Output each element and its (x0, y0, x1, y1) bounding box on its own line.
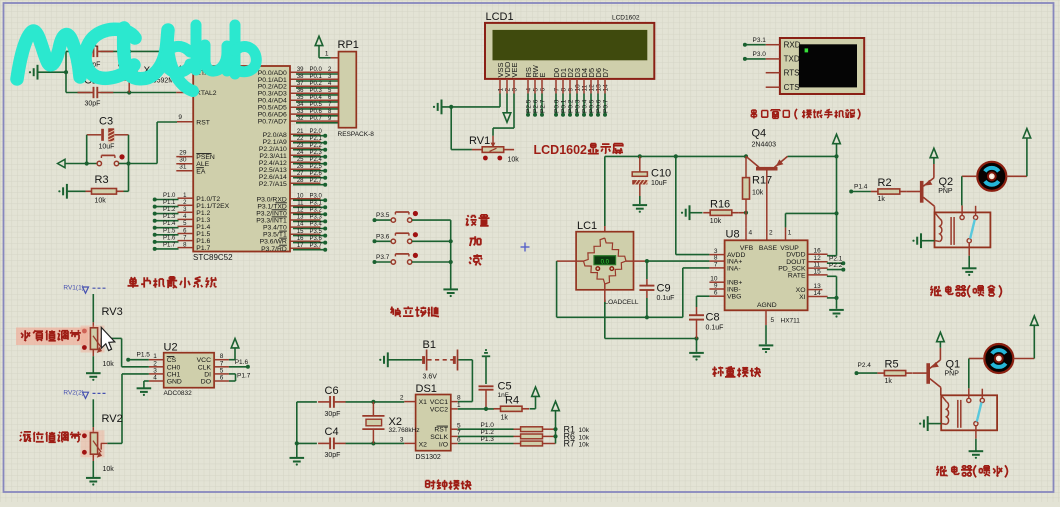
svg-text:10: 10 (297, 193, 304, 199)
svg-text:P1.4: P1.4 (854, 183, 868, 190)
svg-text:P0.6: P0.6 (596, 99, 603, 113)
svg-text:0.1uF: 0.1uF (706, 324, 724, 331)
svg-text:6: 6 (539, 88, 546, 92)
svg-text:13: 13 (595, 84, 602, 92)
svg-text:9: 9 (178, 114, 182, 121)
svg-text:P0.4: P0.4 (582, 99, 589, 113)
svg-text:P0.5: P0.5 (310, 102, 323, 108)
svg-text:SCLK: SCLK (430, 434, 448, 441)
svg-text:R2: R2 (878, 177, 892, 189)
svg-text:LOADCELL: LOADCELL (605, 299, 639, 306)
svg-text:P0.0: P0.0 (554, 99, 561, 113)
svg-text:8: 8 (220, 353, 224, 360)
svg-text:P1.5: P1.5 (196, 231, 210, 238)
svg-text:12: 12 (588, 84, 595, 92)
svg-text:P0.4/AD4: P0.4/AD4 (258, 98, 287, 105)
svg-text:P0.7/AD7: P0.7/AD7 (258, 119, 287, 126)
svg-text:6: 6 (714, 290, 718, 297)
svg-text:5: 5 (771, 317, 775, 324)
svg-text:CTS: CTS (784, 83, 800, 92)
svg-text:LC1: LC1 (577, 220, 597, 232)
svg-text:C6: C6 (325, 385, 339, 397)
svg-text:RV1(1): RV1(1) (63, 284, 83, 291)
svg-text:P3.1/TXD: P3.1/TXD (257, 203, 287, 210)
svg-text:P3.2/INT0: P3.2/INT0 (256, 210, 287, 217)
svg-text:P3.0/RXD: P3.0/RXD (257, 196, 287, 203)
svg-text:I/O: I/O (439, 441, 448, 448)
svg-text:P3.3/INT1: P3.3/INT1 (256, 218, 287, 225)
svg-text:RXD: RXD (784, 40, 801, 49)
svg-text:R16: R16 (710, 198, 730, 210)
svg-text:P2.1: P2.1 (310, 136, 323, 142)
svg-text:P3.4: P3.4 (310, 222, 323, 228)
svg-text:P0.1: P0.1 (310, 74, 323, 80)
svg-text:XTAL2: XTAL2 (196, 90, 216, 97)
svg-text:LCD1602: LCD1602 (534, 143, 588, 157)
svg-text:P2.6: P2.6 (533, 99, 540, 113)
svg-text:24: 24 (297, 150, 304, 156)
svg-text:P3.1: P3.1 (310, 201, 323, 207)
svg-text:29: 29 (179, 149, 187, 156)
svg-text:6: 6 (457, 437, 461, 444)
svg-text:RTS: RTS (784, 68, 800, 77)
svg-text:4: 4 (153, 375, 157, 382)
svg-text:30pF: 30pF (85, 101, 101, 108)
svg-text:P3.7: P3.7 (310, 243, 323, 249)
svg-text:P1.6: P1.6 (163, 235, 176, 241)
svg-text:RV2(2): RV2(2) (63, 390, 83, 397)
svg-text:P0.5: P0.5 (589, 99, 596, 113)
svg-text:2: 2 (400, 395, 404, 402)
svg-text:1: 1 (153, 353, 157, 360)
svg-text:RV3: RV3 (102, 306, 123, 318)
svg-text:C9: C9 (657, 283, 671, 295)
svg-text:R5: R5 (885, 359, 899, 371)
svg-text:P1.3: P1.3 (196, 217, 210, 224)
svg-text:2: 2 (769, 230, 773, 237)
svg-text:15: 15 (297, 229, 304, 235)
svg-text:P1.0/T2: P1.0/T2 (196, 196, 220, 203)
svg-text:P2.1/A9: P2.1/A9 (263, 139, 287, 146)
svg-text:3: 3 (153, 367, 157, 374)
svg-text:P0.2: P0.2 (310, 81, 323, 87)
svg-text:RP1: RP1 (338, 39, 359, 51)
svg-text:30: 30 (179, 156, 187, 163)
svg-text:10k: 10k (710, 218, 722, 225)
svg-text:Q1: Q1 (946, 358, 961, 370)
svg-text:P2.5: P2.5 (526, 99, 533, 113)
svg-text:22: 22 (297, 136, 304, 142)
svg-text:P2.2: P2.2 (829, 262, 843, 269)
svg-text:28: 28 (297, 178, 304, 184)
svg-text:DI: DI (204, 371, 211, 378)
svg-text:P0.3: P0.3 (310, 88, 323, 94)
svg-text:P1.7: P1.7 (163, 242, 176, 248)
svg-text:P0.7: P0.7 (603, 99, 610, 113)
svg-text:12: 12 (297, 208, 304, 214)
svg-text:33: 33 (297, 109, 304, 115)
svg-text:4: 4 (525, 88, 532, 92)
svg-text:DVDD: DVDD (786, 252, 805, 259)
svg-text:5: 5 (457, 422, 461, 429)
svg-text:10k: 10k (579, 441, 590, 448)
svg-text:2N4403: 2N4403 (752, 142, 777, 149)
svg-text:VCC2: VCC2 (430, 407, 448, 414)
svg-text:EA: EA (196, 168, 206, 175)
svg-text:30pF: 30pF (325, 452, 341, 459)
svg-text:7: 7 (220, 360, 224, 367)
svg-text:P3.5/T1: P3.5/T1 (263, 232, 287, 239)
svg-text:8: 8 (560, 88, 567, 92)
svg-text:P3.5: P3.5 (310, 229, 323, 235)
svg-text:P1.1: P1.1 (163, 200, 176, 206)
svg-text:1: 1 (325, 51, 329, 58)
svg-text:P0.3: P0.3 (575, 99, 582, 113)
svg-text:P2.0/A8: P2.0/A8 (263, 132, 287, 139)
svg-text:CLK: CLK (198, 364, 212, 371)
svg-text:INA-: INA- (727, 265, 741, 272)
svg-text:27: 27 (297, 171, 304, 177)
svg-text:RATE: RATE (788, 272, 806, 279)
svg-text:D7: D7 (601, 68, 610, 78)
svg-text:34: 34 (297, 102, 304, 108)
svg-text:P0.2/AD2: P0.2/AD2 (258, 84, 287, 91)
svg-text:X1: X1 (419, 399, 428, 406)
svg-text:RV1: RV1 (469, 135, 490, 147)
svg-text:36: 36 (297, 88, 304, 94)
svg-text:DO: DO (201, 379, 211, 386)
svg-text:R17: R17 (752, 174, 772, 186)
svg-text:PSEN: PSEN (196, 154, 215, 161)
svg-text:P1.1/T2EX: P1.1/T2EX (196, 203, 229, 210)
svg-text:1k: 1k (878, 196, 886, 203)
svg-text:31: 31 (179, 164, 187, 171)
svg-text:23: 23 (297, 143, 304, 149)
svg-text:C10: C10 (651, 167, 671, 179)
svg-text:PNP: PNP (945, 370, 960, 377)
svg-text:C5: C5 (498, 380, 512, 392)
svg-text:R4: R4 (505, 394, 519, 406)
svg-text:P1.5: P1.5 (137, 352, 151, 359)
svg-text:VEE: VEE (510, 62, 519, 77)
svg-text:P3.3: P3.3 (310, 215, 323, 221)
svg-text:7: 7 (553, 88, 560, 92)
svg-text:32.768kHz: 32.768kHz (389, 427, 420, 434)
svg-text:P3.5: P3.5 (376, 212, 390, 219)
svg-text:GND: GND (167, 379, 182, 386)
svg-text:R3: R3 (95, 174, 109, 186)
svg-text:P1.0: P1.0 (481, 422, 495, 429)
svg-text:10k: 10k (95, 197, 107, 204)
svg-text:INB-: INB- (727, 286, 741, 293)
svg-text:RST: RST (196, 119, 210, 126)
svg-text:P2.2/A10: P2.2/A10 (259, 146, 287, 153)
svg-text:RESPACK-8: RESPACK-8 (338, 131, 375, 138)
svg-text:PNP: PNP (938, 188, 953, 195)
svg-text:XI: XI (799, 294, 806, 301)
svg-text:10k: 10k (103, 466, 115, 473)
svg-text:P3.0: P3.0 (753, 51, 767, 58)
svg-text:5: 5 (220, 367, 224, 374)
svg-text:BASE: BASE (759, 245, 778, 252)
svg-text:C8: C8 (706, 311, 720, 323)
svg-text:10: 10 (574, 84, 581, 92)
svg-text:P2.4: P2.4 (858, 362, 872, 369)
svg-text:VCC: VCC (197, 357, 211, 364)
svg-text:9: 9 (567, 88, 574, 92)
svg-text:P1.2: P1.2 (481, 429, 495, 436)
svg-text:10k: 10k (752, 189, 764, 196)
svg-text:P1.4: P1.4 (196, 224, 210, 231)
svg-text:11: 11 (581, 84, 588, 91)
svg-text:P3.6: P3.6 (376, 233, 390, 240)
svg-text:P2.0: P2.0 (310, 129, 323, 135)
svg-text:P2.2: P2.2 (310, 143, 323, 149)
svg-text:39: 39 (297, 67, 304, 73)
svg-text:P0.4: P0.4 (310, 95, 323, 101)
svg-text:DS1302: DS1302 (416, 454, 441, 461)
svg-text:P0.2: P0.2 (568, 99, 575, 113)
svg-text:VBG: VBG (727, 294, 741, 301)
svg-text:P0.6/AD6: P0.6/AD6 (258, 112, 287, 119)
svg-text:1k: 1k (501, 414, 509, 421)
svg-text:P2.6/A14: P2.6/A14 (259, 174, 287, 181)
svg-text:2: 2 (153, 360, 157, 367)
svg-text:5: 5 (532, 88, 539, 92)
svg-text:0.0: 0.0 (601, 259, 610, 265)
svg-text:1: 1 (497, 88, 504, 92)
svg-text:14: 14 (602, 84, 609, 92)
svg-text:1k: 1k (885, 378, 893, 385)
svg-text:P0.6: P0.6 (310, 109, 323, 115)
svg-text:E: E (538, 72, 547, 77)
svg-text:DS1: DS1 (416, 383, 437, 395)
svg-text:HX711: HX711 (781, 318, 801, 325)
svg-text:P3.6: P3.6 (310, 236, 323, 242)
svg-text:LCD1602: LCD1602 (612, 15, 640, 22)
svg-text:RV2: RV2 (102, 413, 123, 425)
svg-text:10k: 10k (508, 157, 520, 164)
svg-text:P2.7: P2.7 (540, 99, 547, 113)
svg-text:P1.2: P1.2 (163, 207, 176, 213)
svg-text:STC89C52: STC89C52 (193, 253, 233, 262)
svg-text:P0.3/AD3: P0.3/AD3 (258, 91, 287, 98)
svg-text:10k: 10k (579, 427, 590, 434)
svg-text:6: 6 (220, 375, 224, 382)
svg-text:RST: RST (434, 427, 448, 434)
svg-text:C3: C3 (99, 116, 113, 128)
svg-text:P2.3/A11: P2.3/A11 (259, 153, 287, 160)
svg-text:26: 26 (297, 164, 304, 170)
svg-text:P2.7/A15: P2.7/A15 (259, 181, 287, 188)
svg-text:P0.0: P0.0 (310, 67, 323, 73)
svg-text:P0.1: P0.1 (561, 99, 568, 113)
svg-text:TXD: TXD (784, 55, 800, 64)
svg-text:8: 8 (457, 395, 461, 402)
svg-text:U2: U2 (164, 341, 178, 353)
svg-text:P1.7: P1.7 (196, 245, 210, 252)
svg-text:P2.3: P2.3 (310, 150, 323, 156)
svg-text:3: 3 (511, 88, 518, 92)
svg-text:Q4: Q4 (752, 128, 767, 140)
svg-text:P0.7: P0.7 (310, 116, 323, 122)
svg-text:P1.2: P1.2 (196, 210, 210, 217)
svg-text:P1.3: P1.3 (163, 214, 176, 220)
svg-text:3.6V: 3.6V (423, 373, 438, 380)
svg-text:4: 4 (749, 230, 753, 237)
svg-text:1: 1 (457, 402, 461, 409)
svg-text:2: 2 (504, 87, 511, 91)
svg-text:30pF: 30pF (325, 411, 341, 418)
svg-text:10uF: 10uF (651, 180, 667, 187)
svg-text:17: 17 (297, 243, 304, 249)
svg-text:P3.7: P3.7 (376, 254, 390, 261)
svg-text:CS: CS (167, 357, 177, 364)
svg-text:3: 3 (400, 437, 404, 444)
svg-text:P2.4: P2.4 (310, 157, 323, 163)
svg-text:37: 37 (297, 81, 304, 87)
svg-text:P1.6: P1.6 (196, 238, 210, 245)
svg-text:P2.6: P2.6 (310, 171, 323, 177)
svg-text:38: 38 (297, 74, 304, 80)
svg-text:U8: U8 (726, 229, 740, 241)
svg-text:P3.6/WR: P3.6/WR (260, 239, 287, 246)
svg-text:R7: R7 (564, 439, 576, 449)
svg-text:7: 7 (714, 261, 718, 268)
svg-text:21: 21 (297, 129, 304, 135)
svg-text:0.1uF: 0.1uF (657, 295, 675, 302)
svg-text:16: 16 (297, 236, 304, 242)
svg-text:AGND: AGND (757, 302, 777, 309)
svg-text:32: 32 (297, 116, 304, 122)
svg-text:25: 25 (297, 157, 304, 163)
svg-text:P3.7/RD: P3.7/RD (261, 246, 287, 253)
svg-text:B1: B1 (423, 339, 436, 351)
svg-text:1: 1 (788, 230, 792, 237)
svg-text:P2.7: P2.7 (310, 178, 323, 184)
svg-text:P1.5: P1.5 (163, 228, 176, 234)
svg-text:C4: C4 (325, 426, 339, 438)
svg-text:P2.5/A13: P2.5/A13 (259, 167, 287, 174)
svg-text:CH1: CH1 (167, 371, 181, 378)
svg-text:35: 35 (297, 95, 304, 101)
svg-text:X2: X2 (419, 441, 428, 448)
svg-text:Q2: Q2 (939, 176, 954, 188)
svg-text:P1.3: P1.3 (481, 436, 495, 443)
svg-text:P3.4/T0: P3.4/T0 (263, 225, 287, 232)
svg-text:14: 14 (297, 222, 304, 228)
svg-text:P2.4/A12: P2.4/A12 (259, 160, 287, 167)
svg-text:CH0: CH0 (167, 364, 181, 371)
svg-text:ADC0832: ADC0832 (164, 390, 193, 397)
svg-text:ALE: ALE (196, 161, 209, 168)
svg-text:P1.7: P1.7 (237, 372, 251, 379)
svg-text:P1.4: P1.4 (163, 221, 176, 227)
svg-text:P3.0: P3.0 (310, 193, 323, 199)
svg-text:7: 7 (457, 430, 461, 437)
svg-text:13: 13 (297, 215, 304, 221)
svg-text:10k: 10k (103, 361, 115, 368)
svg-text:P1.0: P1.0 (163, 193, 176, 199)
svg-text:10k: 10k (579, 434, 590, 441)
svg-text:P0.0/AD0: P0.0/AD0 (258, 70, 287, 77)
svg-text:P2.5: P2.5 (310, 164, 323, 170)
svg-text:11: 11 (297, 201, 304, 207)
svg-text:P1.6: P1.6 (235, 359, 249, 366)
svg-text:10uF: 10uF (99, 143, 115, 150)
svg-text:LCD1: LCD1 (486, 11, 514, 23)
svg-text:P3.1: P3.1 (753, 37, 767, 44)
svg-text:P3.2: P3.2 (310, 208, 323, 214)
svg-text:VCC1: VCC1 (430, 399, 448, 406)
